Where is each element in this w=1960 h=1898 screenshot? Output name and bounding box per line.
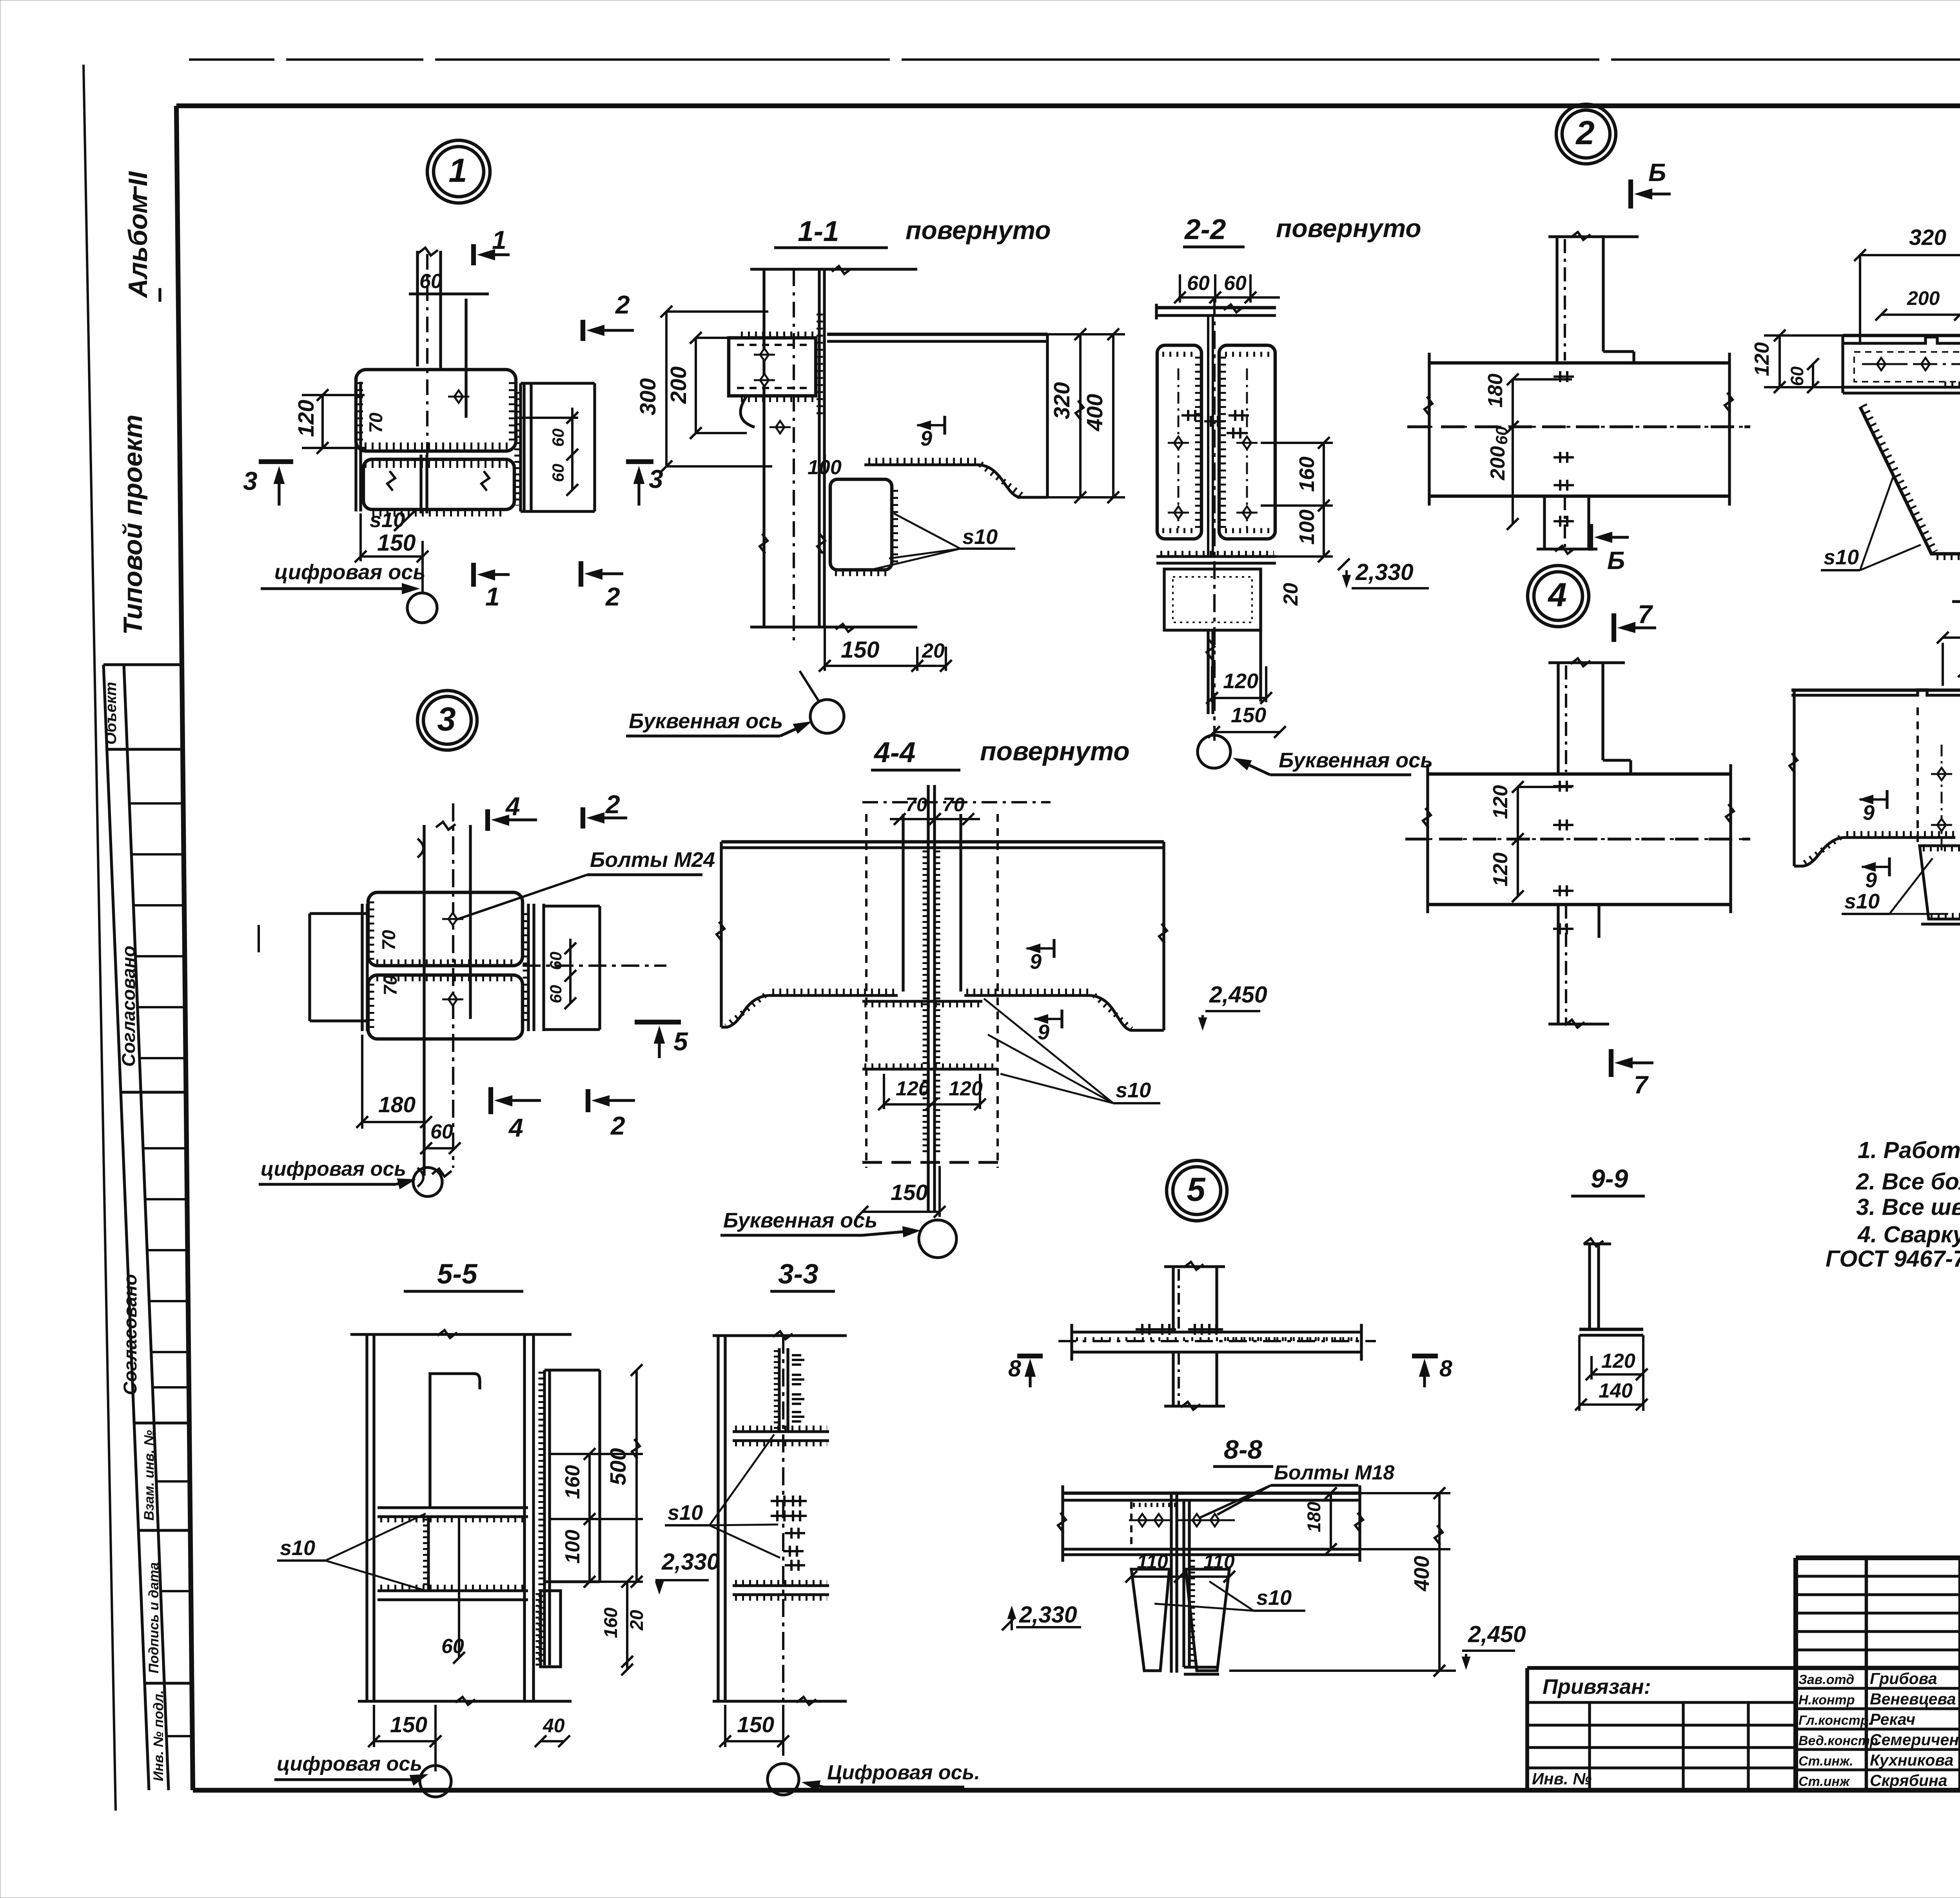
svg-text:100: 100 [561,1530,584,1564]
svg-text:4: 4 [505,792,520,821]
svg-text:2,330: 2,330 [661,1549,720,1575]
svg-text:1: 1 [492,225,506,254]
svg-text:s10: s10 [962,525,998,549]
svg-text:Кухникова: Кухникова [1870,1751,1953,1769]
svg-text:Подпись и дата: Подпись и дата [146,1562,162,1673]
svg-text:70: 70 [378,930,399,950]
svg-text:цифровая ось: цифровая ось [274,560,425,584]
svg-text:2,450: 2,450 [1468,1621,1526,1647]
svg-text:Согласовано: Согласовано [120,1274,140,1395]
svg-text:9: 9 [920,427,932,450]
svg-text:4-4: 4-4 [873,737,916,769]
svg-text:2: 2 [610,1111,625,1140]
svg-text:Ст.инж: Ст.инж [1798,1774,1850,1789]
svg-text:Буквенная ось: Буквенная ось [723,1209,877,1232]
svg-text:5: 5 [673,1027,688,1056]
svg-text:1: 1 [448,152,467,189]
svg-text:20: 20 [626,1610,647,1631]
svg-text:9: 9 [1030,950,1042,973]
svg-text:70: 70 [906,794,927,816]
svg-text:60: 60 [1787,366,1807,386]
svg-text:9: 9 [1865,868,1877,892]
svg-text:1-1: 1-1 [798,216,839,247]
svg-text:120: 120 [1223,669,1258,693]
svg-text:500: 500 [606,1448,631,1485]
svg-text:Зав.отд: Зав.отд [1798,1672,1854,1687]
svg-text:160: 160 [561,1465,584,1499]
svg-text:Инв. №: Инв. № [1532,1769,1592,1788]
svg-text:4: 4 [508,1113,523,1142]
svg-text:2: 2 [615,290,630,319]
svg-text:Буквенная ось: Буквенная ось [1279,749,1433,772]
svg-text:70: 70 [943,794,965,816]
svg-text:Согласовано: Согласовано [118,946,139,1067]
svg-text:320: 320 [1049,382,1074,419]
svg-text:120: 120 [896,1077,930,1100]
svg-text:2. Все болты М20, кроме оговор: 2. Все болты М20, кроме оговоренных. [1856,1169,1960,1195]
svg-text:8: 8 [1439,1356,1452,1381]
svg-text:9: 9 [1038,1021,1049,1044]
svg-text:20: 20 [922,640,945,662]
svg-text:2: 2 [605,790,620,819]
svg-text:Болты М24: Болты М24 [590,848,715,872]
svg-text:3: 3 [649,464,663,493]
svg-text:Альбом II: Альбом II [123,170,153,299]
svg-text:Грибова: Грибова [1870,1670,1937,1688]
svg-text:120: 120 [1751,342,1773,376]
svg-text:60: 60 [549,428,567,447]
svg-text:цифровая ось: цифровая ось [261,1158,406,1180]
svg-text:60: 60 [419,270,442,293]
svg-text:120: 120 [294,400,319,437]
svg-text:60: 60 [430,1120,453,1143]
svg-text:60: 60 [549,464,567,482]
svg-text:Цифровая ось.: Цифровая ось. [827,1761,980,1784]
svg-text:160: 160 [1295,457,1319,492]
svg-text:100: 100 [1295,509,1319,545]
svg-text:120: 120 [1489,785,1512,819]
svg-text:9-9: 9-9 [1591,1164,1628,1193]
svg-text:8-8: 8-8 [1224,1435,1262,1465]
svg-text:9: 9 [1863,801,1875,825]
svg-text:s10: s10 [1256,1586,1292,1610]
svg-text:60: 60 [441,1635,464,1658]
svg-text:60: 60 [1224,272,1247,295]
svg-text:20: 20 [1279,583,1302,606]
svg-text:400: 400 [1082,394,1107,431]
svg-text:150: 150 [841,637,880,663]
svg-text:300: 300 [635,378,661,415]
svg-text:Болты М18: Болты М18 [1274,1461,1394,1484]
svg-text:5-5: 5-5 [437,1259,478,1290]
svg-text:400: 400 [1410,1556,1434,1592]
svg-text:Инв. № подл.: Инв. № подл. [151,1690,166,1781]
svg-text:120: 120 [1601,1350,1635,1372]
svg-text:Гл.констр.: Гл.констр. [1798,1713,1872,1728]
svg-text:120: 120 [949,1077,983,1100]
svg-text:60: 60 [1492,426,1511,445]
svg-text:120: 120 [1489,852,1512,886]
svg-text:4. Сварку производить элект: 4. Сварку производить электродами типа Э… [1857,1222,1960,1247]
svg-text:2: 2 [1575,114,1594,152]
svg-text:180: 180 [1484,373,1507,408]
svg-text:повернуто: повернуто [980,736,1130,766]
svg-text:160: 160 [600,1608,621,1638]
svg-text:s10: s10 [280,1536,315,1560]
svg-text:3-3: 3-3 [778,1259,818,1290]
svg-text:3. Все швы по ГОСТ 14806-80: 3. Все швы по ГОСТ 14806-80-Т5-РН3 -Δ6. [1856,1194,1960,1220]
svg-text:s10: s10 [1824,546,1859,569]
svg-text:s10: s10 [1116,1079,1151,1102]
svg-text:Б: Б [1607,546,1625,575]
svg-text:7: 7 [1638,600,1653,629]
svg-text:150: 150 [390,1712,427,1737]
svg-text:Семериченко: Семериченко [1870,1731,1960,1749]
svg-text:Взам. инв. №: Взам. инв. № [142,1430,157,1521]
svg-text:40: 40 [543,1715,565,1737]
svg-text:Веневцева: Веневцева [1870,1690,1956,1708]
svg-text:70: 70 [380,975,401,995]
svg-text:150: 150 [891,1180,928,1205]
svg-text:повернуто: повернуто [1276,214,1421,243]
svg-text:Рекач: Рекач [1870,1710,1915,1728]
svg-text:60: 60 [546,952,565,970]
svg-text:Буквенная ось: Буквенная ось [629,709,783,733]
svg-text:повернуто: повернуто [906,216,1051,245]
svg-text:Объект: Объект [102,682,120,745]
svg-text:Вед.констр: Вед.констр [1798,1733,1878,1748]
svg-text:7: 7 [1634,1071,1649,1099]
svg-text:180: 180 [378,1092,416,1117]
svg-text:Скрябина: Скрябина [1870,1771,1947,1789]
svg-text:200: 200 [1486,446,1509,480]
svg-text:s10: s10 [370,508,405,532]
svg-text:1: 1 [485,582,500,611]
svg-text:3: 3 [243,466,258,495]
svg-text:150: 150 [1231,703,1266,727]
svg-text:Б: Б [1648,158,1666,187]
svg-text:180: 180 [1303,1502,1324,1532]
svg-text:320: 320 [1909,225,1946,250]
svg-text:2,330: 2,330 [1019,1602,1077,1628]
svg-text:60: 60 [546,985,565,1003]
svg-text:8: 8 [1008,1356,1021,1381]
svg-text:ГОСТ 9467-75: ГОСТ 9467-75 [1826,1246,1960,1272]
svg-text:s10: s10 [1844,890,1880,913]
svg-text:4: 4 [1547,576,1566,614]
svg-text:Типовой проект: Типовой проект [118,415,148,635]
svg-text:150: 150 [737,1712,774,1737]
svg-text:Н.контр: Н.контр [1798,1693,1855,1708]
svg-text:2,330: 2,330 [1355,559,1414,585]
svg-text:60: 60 [1187,272,1210,295]
svg-text:140: 140 [1599,1380,1633,1402]
svg-text:7-7: 7-7 [1958,568,1960,599]
svg-text:3: 3 [437,701,456,738]
svg-text:Привязан:: Привязан: [1543,1675,1651,1699]
svg-text:200: 200 [1907,287,1940,309]
svg-text:2,450: 2,450 [1209,982,1267,1008]
svg-text:1. Работать совместно с листам: 1. Работать совместно с листами 20,23. [1858,1137,1960,1163]
svg-text:2-2: 2-2 [1184,214,1226,245]
svg-text:Ст.инж.: Ст.инж. [1798,1754,1853,1769]
svg-text:5: 5 [1187,1171,1206,1208]
svg-text:150: 150 [377,530,416,556]
svg-text:цифровая ось: цифровая ось [277,1753,422,1775]
svg-text:2: 2 [605,582,620,611]
svg-text:200: 200 [666,366,691,404]
svg-text:s10: s10 [668,1501,703,1525]
svg-text:70: 70 [365,413,386,433]
